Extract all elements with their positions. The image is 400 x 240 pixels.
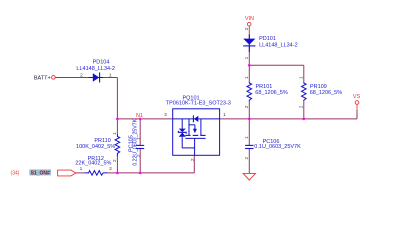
junction PR101 bottom <box>248 118 251 121</box>
svg-text:TP0610K-T1-E3_SOT23-3: TP0610K-T1-E3_SOT23-3 <box>166 101 231 107</box>
svg-text:22K_0402_5%: 22K_0402_5% <box>75 161 111 167</box>
svg-text:S1_ON#: S1_ON# <box>31 170 50 176</box>
svg-text:2: 2 <box>80 72 83 78</box>
pin 2 PD104 <box>80 72 83 78</box>
label PR101 ref <box>256 84 273 90</box>
PQ101 gate plate <box>185 137 205 139</box>
label PR112 value <box>75 161 111 167</box>
label PD104 value <box>76 66 115 72</box>
pin 1 PC106 <box>244 136 250 139</box>
pin 2 PQ101 <box>190 158 196 161</box>
wire VIN drop <box>248 26 250 65</box>
svg-text:68_1206_5%: 68_1206_5% <box>255 90 288 96</box>
PQ101 gate lead <box>182 138 195 155</box>
svg-text:2: 2 <box>136 154 142 157</box>
ground <box>243 173 255 180</box>
resistor PR109 <box>302 82 307 101</box>
label PR110 ref <box>94 138 110 144</box>
svg-text:LL4148_LL34-2: LL4148_LL34-2 <box>76 66 115 72</box>
svg-text:PD104: PD104 <box>93 60 110 66</box>
label PC106 value <box>254 144 301 150</box>
svg-text:2: 2 <box>244 105 250 108</box>
svg-text:100K_0402_5%: 100K_0402_5% <box>76 144 115 150</box>
wire PR109 column <box>303 65 305 119</box>
pin 2 PD101 <box>244 27 250 30</box>
label VIN <box>245 16 254 22</box>
svg-text:1: 1 <box>244 76 250 79</box>
capacitor PC105 <box>136 145 144 148</box>
junction PC105 bottom <box>139 172 142 175</box>
svg-text:PR101: PR101 <box>256 84 273 90</box>
svg-text:VIN: VIN <box>245 16 254 22</box>
label PQ101 ref <box>182 95 199 101</box>
PQ101 body diode <box>193 115 198 122</box>
label PQ101 value <box>166 101 231 107</box>
svg-text:2: 2 <box>299 105 305 108</box>
label BATT+ <box>34 75 51 81</box>
svg-text:1: 1 <box>299 76 305 79</box>
pin 1 PD101 <box>244 56 250 59</box>
transistor PQ101 body box <box>173 109 220 156</box>
label PC105 ref (rotated) <box>128 135 134 152</box>
svg-text:(34): (34) <box>11 170 20 176</box>
terminal BATT+ <box>52 76 56 80</box>
svg-text:PR110: PR110 <box>94 138 110 144</box>
wire VS riser <box>356 104 358 119</box>
pin 2 PR110 <box>112 159 118 162</box>
resistor PR101 <box>247 82 252 101</box>
pin 3 PQ101 <box>164 112 167 118</box>
power terminal VIN <box>247 22 251 26</box>
junction PR109 bottom <box>303 118 306 121</box>
junction node N1 row left <box>116 118 119 121</box>
label PR109 value <box>310 90 343 96</box>
wire VIN junction row <box>249 64 303 66</box>
pin 1 PR109 <box>299 76 305 79</box>
svg-text:1: 1 <box>244 136 250 139</box>
pin 1 PR110 <box>112 132 118 135</box>
resistor PR110 <box>115 134 120 157</box>
svg-text:3: 3 <box>164 112 167 118</box>
pin 2 PC106 <box>244 156 250 159</box>
svg-text:2: 2 <box>112 159 118 162</box>
pin 1 PR112 <box>80 166 83 172</box>
pin 1 PD104 <box>109 72 112 78</box>
wire BATT+ horizontal <box>55 77 117 79</box>
junction VIN split <box>248 64 251 67</box>
diode PD101 <box>243 34 255 52</box>
capacitor PC106 <box>245 145 253 148</box>
svg-text:1: 1 <box>112 132 118 135</box>
svg-text:PD101: PD101 <box>259 36 276 42</box>
label PC105 value (rotated) <box>133 118 139 165</box>
svg-text:1: 1 <box>109 72 112 78</box>
PQ101 internal rail <box>173 118 220 120</box>
resistor PR112 <box>84 171 107 176</box>
net name S1_ON# <box>29 169 51 176</box>
label PD101 ref <box>259 36 276 42</box>
pin 1 PQ101 <box>223 112 226 118</box>
pin 2 PC105 <box>136 154 142 157</box>
label PR112 ref <box>88 156 104 162</box>
wire PC106 branch to ground <box>248 119 250 173</box>
PQ101 zener branch vertical <box>181 119 183 148</box>
junction bottom row PR112 <box>116 172 119 175</box>
svg-text:LL4148_LL34-2: LL4148_LL34-2 <box>259 42 298 48</box>
junction PC105 top <box>139 118 142 121</box>
diode PD104 <box>89 73 104 83</box>
label PD104 ref <box>93 60 110 66</box>
svg-text:2: 2 <box>190 158 196 161</box>
svg-text:N1: N1 <box>136 113 143 119</box>
wire PR101 column <box>248 65 250 119</box>
svg-text:2: 2 <box>109 166 112 172</box>
label PD101 value <box>259 42 298 48</box>
svg-text:1: 1 <box>244 56 250 59</box>
page reference (34) <box>11 170 20 176</box>
PQ101 substrate arrow <box>189 125 197 133</box>
wire left vertical upper (PD104 cathode down to node N1 row) <box>116 78 118 134</box>
svg-text:1: 1 <box>223 112 226 118</box>
PQ101 mosfet drain/source verticals <box>189 119 201 135</box>
svg-text:BATT+: BATT+ <box>34 75 51 81</box>
wire bottom row (connector to PR112, PR112 to gate riser) <box>76 172 195 174</box>
svg-text:1: 1 <box>136 137 142 140</box>
svg-text:2: 2 <box>244 156 250 159</box>
pin 1 PR101 <box>244 76 250 79</box>
net label N1 <box>136 113 143 119</box>
label PR110 value <box>76 144 115 150</box>
label PR101 value <box>255 90 288 96</box>
pin 2 PR109 <box>299 105 305 108</box>
svg-text:1: 1 <box>80 166 83 172</box>
svg-text:PR109: PR109 <box>310 84 327 90</box>
svg-text:0.22U_0603_25V7K: 0.22U_0603_25V7K <box>133 118 139 165</box>
off-page connector arrow <box>58 170 76 176</box>
wire main row left (node N1 to PQ101 pin 3) <box>117 118 172 120</box>
svg-text:VS: VS <box>353 94 361 100</box>
svg-text:2: 2 <box>244 27 250 30</box>
svg-text:0.1U_0603_25V7K: 0.1U_0603_25V7K <box>254 144 301 150</box>
label PC106 ref <box>263 139 280 145</box>
wire PC105 branch <box>139 119 141 173</box>
label VS <box>353 94 361 100</box>
PQ101 channel dashes <box>185 134 205 136</box>
label PR109 ref <box>310 84 327 90</box>
wire main row right (PQ101 pin 1 to VS corner) <box>220 118 357 120</box>
svg-text:68_1206_5%: 68_1206_5% <box>310 90 343 96</box>
pin 2 PR101 <box>244 105 250 108</box>
wire gate riser to PQ101 pin 2 <box>193 155 195 173</box>
PQ101 protection zener <box>178 129 186 137</box>
pin 2 PR112 <box>109 166 112 172</box>
power terminal VS <box>355 101 359 105</box>
wire left vertical lower (below PR110 to bottom row) <box>116 157 118 173</box>
pin 1 PC105 <box>136 137 142 140</box>
